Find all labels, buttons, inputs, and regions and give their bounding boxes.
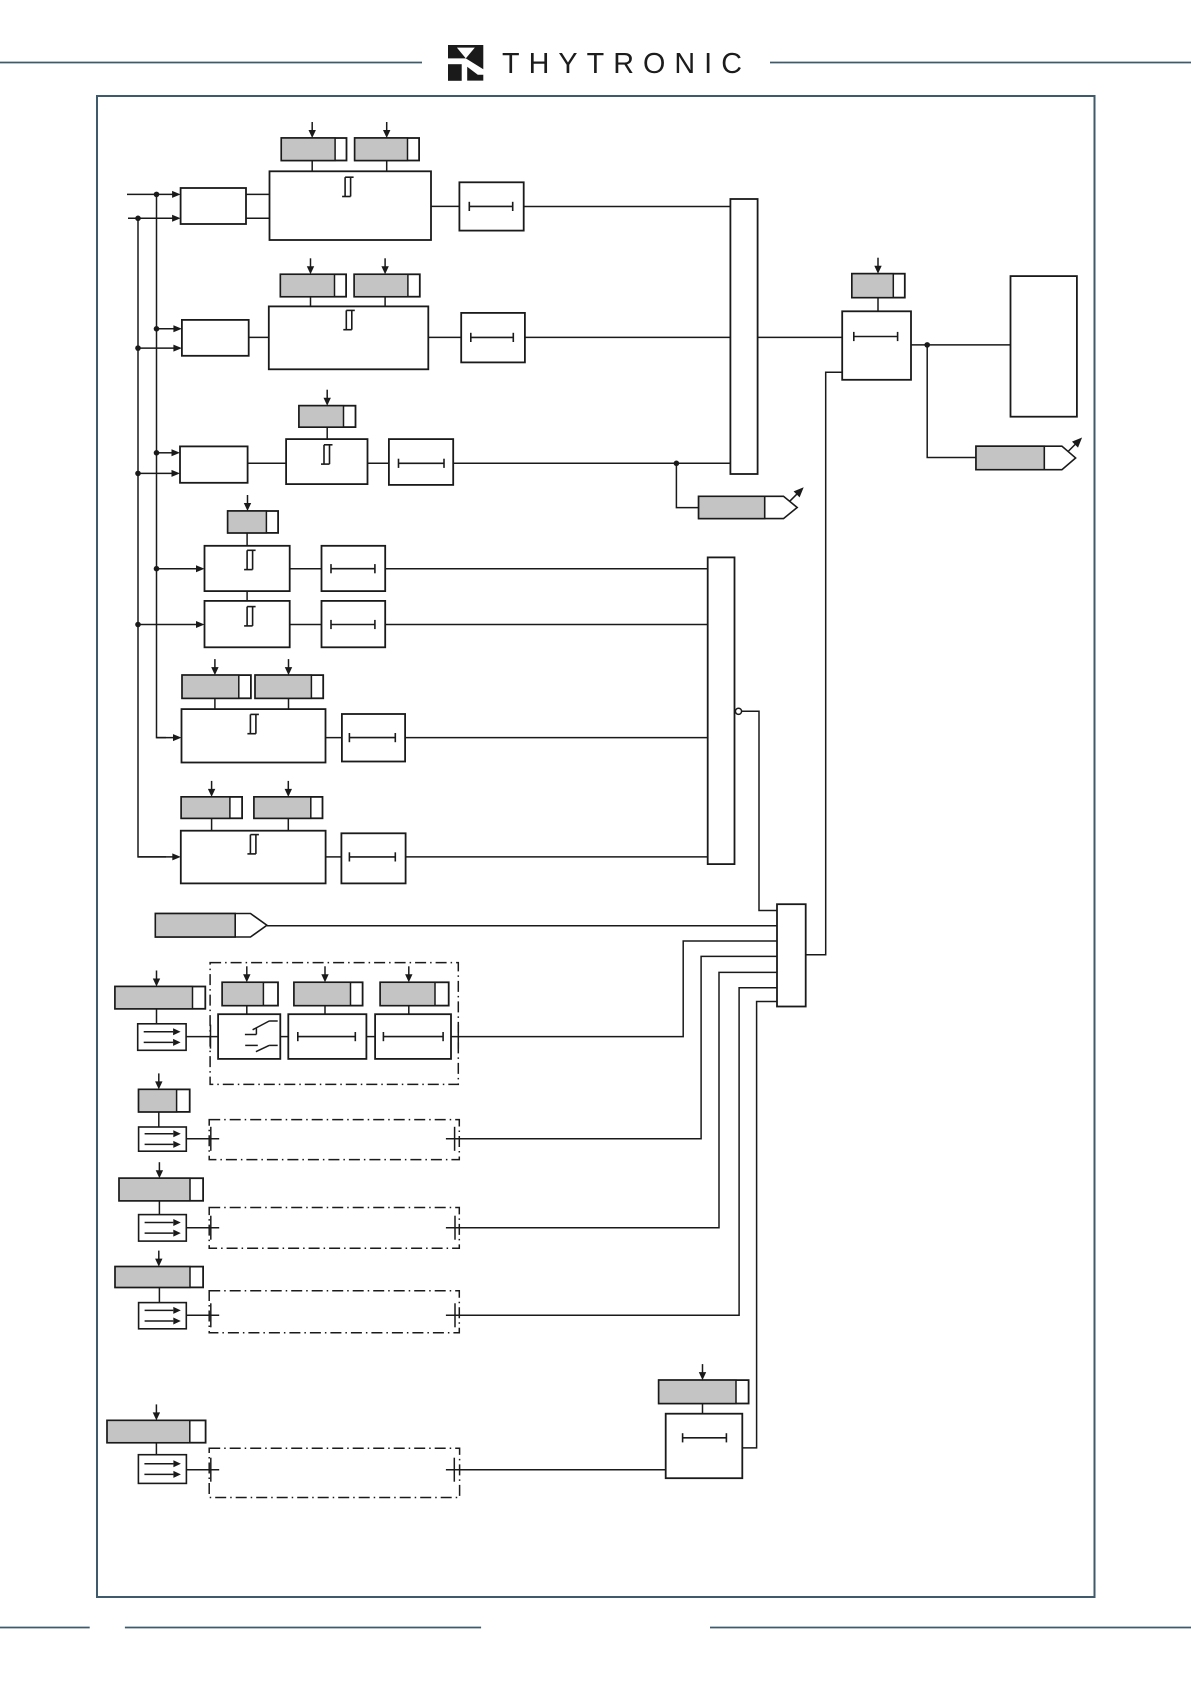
measuring block M1	[181, 188, 246, 224]
setting curve S4	[354, 274, 420, 296]
wire	[267, 925, 777, 927]
edge detector D1	[138, 1024, 186, 1051]
junction	[154, 192, 160, 198]
setting arrow	[309, 122, 316, 138]
wire	[280, 1036, 288, 1038]
input arrow	[157, 325, 182, 332]
setting SA2	[294, 982, 363, 1005]
OR gate G1	[730, 199, 757, 474]
wire	[927, 345, 976, 458]
timer T8	[842, 311, 911, 380]
dashed logic frame B	[209, 1120, 459, 1160]
wire	[326, 427, 328, 439]
circuit breaker contact block B1	[218, 1014, 280, 1059]
wire	[431, 205, 459, 207]
edge detector D4	[139, 1303, 187, 1329]
wire	[287, 818, 289, 830]
junction	[135, 471, 141, 477]
boundary tick	[210, 1025, 212, 1049]
timer T2	[461, 313, 525, 363]
setting SA	[115, 987, 205, 1009]
timer symbol	[854, 332, 898, 341]
hysteresis symbol	[247, 714, 259, 733]
header rule left	[0, 62, 422, 64]
dashed group frame CB logic	[210, 963, 458, 1085]
timer symbol	[683, 1433, 727, 1442]
junction	[674, 461, 680, 467]
timer T1	[459, 182, 523, 230]
setting SE	[107, 1420, 206, 1442]
input arrow	[157, 449, 181, 456]
setting arrow	[381, 258, 388, 274]
junction	[135, 345, 141, 351]
timer T6	[342, 714, 405, 762]
wire	[158, 1201, 160, 1215]
wire	[366, 1036, 375, 1038]
timer symbol	[399, 459, 445, 468]
setting arrow	[155, 1073, 162, 1089]
boundary tick	[454, 1303, 456, 1327]
wire	[326, 856, 342, 858]
edge detector D3	[139, 1215, 187, 1242]
wire	[524, 206, 731, 208]
output flag start	[976, 438, 1082, 470]
timer symbol	[349, 733, 395, 742]
timer symbol	[469, 202, 512, 211]
setting SC	[119, 1178, 203, 1201]
wire	[186, 1469, 219, 1471]
setting arrow	[211, 659, 218, 675]
wire	[156, 1009, 158, 1024]
junction	[135, 622, 141, 628]
setting S8	[255, 675, 323, 698]
boundary tick	[454, 1127, 456, 1151]
junction	[924, 342, 930, 348]
timer T9	[666, 1414, 743, 1479]
wire	[186, 1138, 219, 1140]
setting arrow	[324, 390, 331, 406]
wire	[446, 956, 777, 1138]
boundary tick	[210, 1303, 212, 1327]
wire	[248, 462, 287, 464]
wire	[211, 818, 213, 830]
wire	[246, 217, 270, 219]
setting SA1	[222, 982, 278, 1005]
setting SD	[115, 1267, 203, 1288]
threshold comparator K5	[205, 601, 290, 647]
wire	[155, 1443, 157, 1455]
wire	[324, 1006, 326, 1015]
output flag trip	[699, 487, 804, 518]
input arrow	[138, 345, 182, 352]
setting arrow	[285, 659, 292, 675]
setting arrow	[208, 781, 215, 797]
boundary tick	[453, 1458, 455, 1482]
input arrow	[138, 621, 205, 628]
junction	[154, 566, 160, 572]
dashed logic frame C	[209, 1208, 459, 1249]
wire	[406, 856, 708, 858]
header rule right	[770, 62, 1191, 64]
setting arrow	[243, 966, 250, 982]
wire	[702, 1404, 704, 1414]
setting arrow	[321, 966, 328, 982]
setting I> S1	[281, 138, 346, 161]
wire	[385, 624, 708, 626]
wire	[453, 462, 730, 464]
input arrow	[157, 565, 205, 572]
wire	[290, 624, 322, 626]
wire	[386, 161, 388, 172]
timer symbol	[349, 852, 395, 861]
junction	[135, 216, 141, 222]
wire	[405, 737, 708, 739]
wire	[311, 161, 313, 172]
setting arrow	[383, 122, 390, 138]
wire	[911, 344, 1011, 346]
measuring block M3	[180, 446, 248, 482]
wire	[246, 1006, 248, 1015]
setting arrow	[405, 966, 412, 982]
wire	[186, 1227, 219, 1229]
wire	[326, 737, 342, 739]
edge detector D5	[138, 1455, 186, 1484]
wire	[446, 972, 777, 1227]
boundary tick	[210, 1458, 212, 1482]
wire	[158, 1287, 160, 1302]
boundary tick	[457, 1025, 459, 1049]
wire	[246, 193, 270, 195]
breaker contact symbol	[245, 1021, 278, 1052]
input arrow	[157, 734, 182, 741]
wire	[742, 1002, 777, 1448]
wire	[446, 1469, 666, 1471]
setting arrow	[699, 1364, 706, 1380]
timer T7	[341, 833, 405, 883]
inverter bubble	[735, 708, 741, 714]
wire	[742, 711, 777, 910]
input line IA	[127, 191, 181, 198]
input arrow	[138, 470, 180, 477]
setting arrow	[156, 1162, 163, 1178]
Thytronic logo mark	[448, 45, 483, 81]
wire	[186, 1314, 219, 1316]
feed bus line 1	[138, 218, 166, 857]
setting I>>> S5	[299, 406, 356, 427]
setting I>> S3	[280, 274, 346, 296]
timer symbol	[298, 1032, 356, 1041]
input line IB	[128, 215, 181, 222]
setting arrow	[153, 1404, 160, 1420]
setting arrow	[244, 495, 251, 511]
wire	[186, 1036, 218, 1038]
setting S7	[182, 675, 251, 698]
threshold comparator K2	[269, 306, 429, 369]
threshold comparator K4	[205, 546, 290, 591]
threshold comparator K3	[286, 439, 367, 484]
wire	[408, 1006, 410, 1015]
wire	[158, 1112, 160, 1127]
threshold comparator K7	[181, 831, 326, 884]
setting SE1	[659, 1380, 749, 1403]
setting arrow	[153, 971, 160, 987]
wire	[451, 941, 777, 1037]
setting S10	[254, 797, 323, 818]
hysteresis symbol	[343, 310, 355, 329]
wire	[249, 336, 269, 338]
setting SA3	[380, 982, 449, 1005]
boundary tick	[210, 1127, 212, 1151]
wire	[214, 698, 216, 709]
wire	[246, 533, 248, 546]
hysteresis symbol	[321, 445, 333, 464]
wire	[877, 298, 879, 312]
wire	[446, 988, 777, 1316]
hysteresis symbol	[342, 177, 354, 196]
output logic block	[1011, 276, 1077, 417]
wire	[385, 568, 708, 570]
setting S9	[181, 797, 242, 818]
threshold comparator K6	[182, 709, 326, 762]
wire	[758, 336, 843, 338]
setting arrow	[307, 258, 314, 274]
dashed logic frame E	[209, 1448, 459, 1497]
wire	[525, 336, 731, 338]
measuring block M2	[182, 320, 249, 356]
timer T3	[389, 439, 453, 485]
footer rule 2	[125, 1627, 481, 1629]
timer symbol	[331, 564, 375, 573]
OR gate G3	[777, 904, 806, 1006]
wire	[288, 698, 290, 709]
junction	[154, 326, 160, 332]
hysteresis symbol	[244, 607, 256, 626]
feed bus line 2	[157, 194, 167, 737]
input flag blocking	[155, 914, 267, 938]
setting curve S2	[355, 138, 419, 161]
input arrow	[138, 853, 181, 860]
timer T5	[322, 601, 386, 647]
timer symbol	[383, 1032, 443, 1041]
boundary tick	[454, 1216, 456, 1240]
diagram frame	[97, 96, 1095, 1597]
timer TA2	[375, 1014, 451, 1059]
setting SB	[139, 1089, 190, 1112]
edge detector D2	[139, 1127, 187, 1151]
hysteresis symbol	[247, 835, 259, 854]
timer symbol	[331, 620, 375, 629]
setting arrow	[874, 258, 881, 274]
timer T4	[322, 546, 386, 591]
dashed logic frame D	[209, 1291, 459, 1333]
threshold comparator K1	[270, 171, 432, 240]
wire	[368, 462, 389, 464]
OR gate G2	[708, 557, 735, 864]
setting S6	[228, 511, 278, 533]
wire	[290, 568, 322, 570]
hysteresis symbol	[244, 550, 256, 569]
boundary tick	[210, 1216, 212, 1240]
wire	[428, 336, 461, 338]
timer symbol	[471, 333, 514, 342]
feedback wire	[806, 372, 843, 955]
setting arrow	[285, 781, 292, 797]
setting arrow	[155, 1251, 162, 1267]
footer rule 3	[710, 1627, 1191, 1629]
Thytronic wordmark	[502, 48, 751, 80]
junction	[154, 450, 160, 456]
wire	[310, 297, 312, 307]
wire	[384, 297, 386, 307]
setting S11	[852, 274, 905, 298]
wire	[246, 591, 248, 601]
svg-text:THYTRONIC: THYTRONIC	[502, 48, 751, 80]
footer rule 1	[0, 1627, 90, 1629]
wire	[676, 463, 698, 507]
timer TA1	[288, 1014, 366, 1059]
